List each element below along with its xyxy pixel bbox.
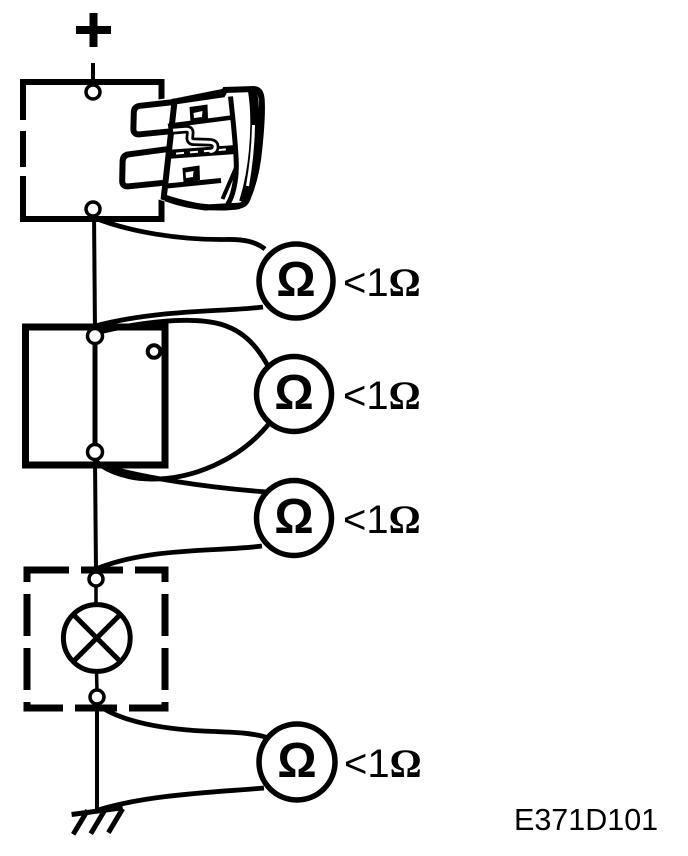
wire lead meter3 top (97, 464, 267, 492)
fuse upper blade (133, 102, 179, 135)
wire lead meter3 bottom (96, 546, 262, 569)
wire lead meter2 bottom (96, 421, 271, 479)
fuse rim white sliver (248, 125, 254, 186)
fuse cap step line (223, 167, 237, 199)
fuse bottom window notch (186, 171, 194, 178)
lamp upper stub (94, 586, 98, 606)
fuse bottom shadow line (207, 208, 240, 210)
terminal circle lamp top (89, 572, 103, 586)
fuse element S-tube white core (173, 129, 215, 151)
wire lead meter4 top (97, 704, 268, 738)
fuse front divider upper (168, 118, 232, 126)
fuse illustration (blade fuse, 3/4 view) (120, 88, 264, 209)
lamp symbol circle (63, 605, 130, 672)
fuse bottom edge reinforcement (166, 199, 208, 208)
svg-text:<1Ω: <1Ω (344, 741, 422, 786)
wire segment lamp to ground (95, 704, 99, 810)
lamp lower stub (95, 671, 99, 690)
svg-text:Ω: Ω (274, 366, 313, 420)
terminal circle lamp bottom (90, 690, 104, 704)
terminal circle fuse bottom (86, 202, 100, 216)
lamp box (dashed) (27, 570, 165, 708)
wire segment relay to lamp box (95, 460, 96, 572)
svg-text:<1Ω: <1Ω (343, 373, 421, 418)
lamp cross diagonal 1 (74, 615, 121, 662)
fuse top face rim line (178, 91, 225, 100)
svg-text:Ω: Ω (276, 253, 315, 307)
wire stub from + to fuse box (91, 63, 95, 84)
svg-text:E371D101: E371D101 (514, 803, 658, 837)
wire lead meter1 bottom (95, 307, 263, 326)
terminal circle fuse top (86, 85, 100, 99)
fuse top window notch (194, 111, 203, 118)
svg-text:<1Ω: <1Ω (343, 260, 421, 305)
fuse right ear bump (258, 107, 264, 113)
fuse holder box (dashed left edge) (20, 79, 162, 222)
wire segment fuse box bottom to relay box (94, 212, 95, 332)
fuse top window (190, 105, 209, 123)
fuse front divider lower (167, 181, 221, 187)
svg-text:<1Ω: <1Ω (343, 497, 421, 542)
svg-text:Ω: Ω (274, 490, 313, 544)
ohmmeter M1 circle (259, 244, 333, 318)
terminal circle relay top (88, 329, 103, 344)
fuse middle thick band (166, 150, 236, 155)
svg-text:Ω: Ω (277, 734, 316, 788)
ohmmeter M3 circle (257, 481, 332, 556)
ohmmeter M4 circle (259, 724, 335, 800)
relay box (solid) (26, 327, 166, 465)
battery positive symbol + (76, 13, 111, 47)
lamp cross diagonal 2 (74, 615, 121, 662)
relay small circle (148, 345, 161, 358)
wire lead meter1 top (95, 218, 265, 249)
fuse lower blade (122, 149, 170, 187)
fuse right rim band (244, 91, 255, 202)
fuse body outline (164, 89, 262, 208)
fuse band white dashes (176, 149, 231, 154)
fuse cap front edge line (228, 97, 237, 205)
fuse element S-tube dark (173, 129, 215, 151)
ohmmeter M2 circle (257, 357, 332, 432)
ground symbol (72, 808, 123, 835)
fuse white backing (120, 88, 264, 206)
fuse bottom window (183, 166, 201, 183)
relay internal vertical wire (93, 336, 98, 452)
terminal circle relay bottom (88, 445, 103, 460)
wire lead meter2 top (95, 320, 268, 366)
wire lead meter4 bottom (98, 788, 264, 810)
